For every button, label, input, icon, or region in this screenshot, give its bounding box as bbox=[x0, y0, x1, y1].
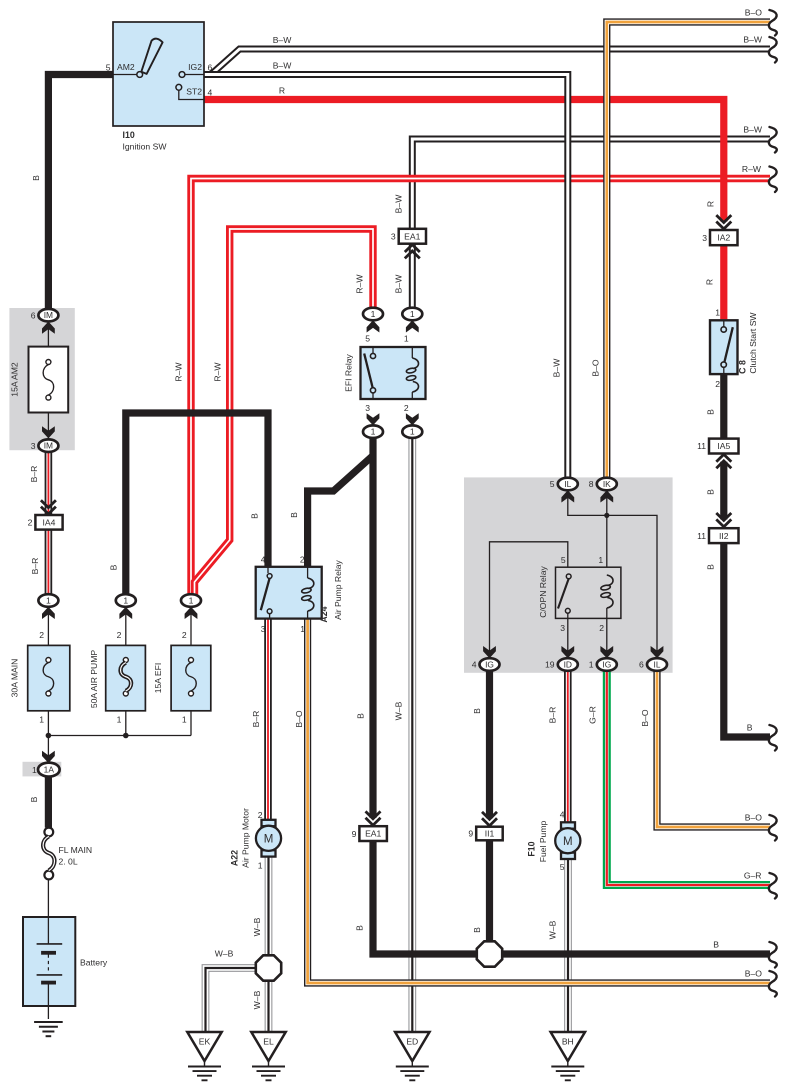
junction dot fuse rail left bbox=[46, 733, 52, 739]
connector 3 EA1 bbox=[391, 229, 426, 244]
svg-text:5: 5 bbox=[560, 862, 565, 872]
wire B-O from right edge down to C/OPN IK bbox=[607, 22, 770, 478]
ground battery bbox=[34, 1022, 63, 1036]
connector arrows EA1 lower bbox=[366, 811, 381, 825]
wire W-B junction to EL ground bbox=[265, 979, 273, 1032]
svg-text:W–B: W–B bbox=[252, 990, 262, 1009]
svg-text:5: 5 bbox=[106, 62, 111, 72]
svg-text:I10: I10 bbox=[123, 130, 135, 140]
svg-text:B–W: B–W bbox=[393, 194, 403, 214]
battery bbox=[23, 917, 108, 1006]
svg-text:Air Pump Relay: Air Pump Relay bbox=[333, 559, 343, 619]
ground EK bbox=[187, 1032, 221, 1080]
svg-text:1: 1 bbox=[598, 555, 603, 565]
svg-text:B–R: B–R bbox=[30, 558, 40, 575]
wire B-W from EA1 connector to right edge bbox=[412, 139, 770, 229]
clutch start switch C8 bbox=[710, 320, 738, 374]
arrow into 3 IM bbox=[42, 426, 55, 438]
svg-text:B–R: B–R bbox=[251, 711, 261, 728]
wire B main fuse feed inverted-U to air pump relay pin4 bbox=[126, 413, 268, 594]
svg-text:1: 1 bbox=[410, 427, 415, 437]
svg-text:B–R: B–R bbox=[547, 707, 557, 724]
wire B-O C/OPN IL to right edge bbox=[657, 671, 770, 827]
svg-text:5: 5 bbox=[550, 479, 555, 489]
arrow into 19 ID bbox=[561, 646, 574, 658]
svg-text:B: B bbox=[356, 713, 366, 719]
wire B-R C/OPN ID to fuel pump pin4 bbox=[564, 671, 572, 823]
arrow EFI pin3 bbox=[367, 413, 380, 425]
junction dot IK node bbox=[604, 513, 609, 518]
wire B-W EA1 connector to EFI relay pin1 oval bbox=[409, 244, 416, 308]
svg-text:19: 19 bbox=[545, 660, 555, 670]
wire thin C/OPN relay pin3 to ID oval bbox=[567, 618, 569, 652]
svg-text:B–W: B–W bbox=[273, 35, 293, 45]
connector 9 II1 bbox=[468, 827, 502, 841]
wire thin fuse feeds below connector ovals bbox=[48, 329, 191, 1019]
svg-text:4: 4 bbox=[560, 810, 565, 820]
svg-text:IG: IG bbox=[602, 660, 611, 670]
svg-text:M: M bbox=[563, 836, 573, 848]
shaded ECU area C/OPN relay bbox=[464, 477, 673, 672]
svg-text:B: B bbox=[29, 796, 39, 802]
fuse 50A AIR PUMP bbox=[106, 645, 146, 710]
wire thin C/OPN relay pin2 to IG oval bbox=[606, 618, 608, 652]
continuation curl B-O mid bbox=[769, 815, 777, 841]
svg-text:B–O: B–O bbox=[745, 969, 763, 979]
connector oval fuse 30A bbox=[38, 594, 58, 607]
connector oval EFI pin2 bbox=[402, 425, 422, 438]
svg-text:9: 9 bbox=[352, 829, 357, 839]
fusible link FL MAIN 2.0L bbox=[43, 828, 92, 880]
svg-text:Fuel Pump: Fuel Pump bbox=[538, 821, 548, 863]
svg-text:AM2: AM2 bbox=[117, 62, 135, 72]
connector 6 IM bbox=[31, 309, 59, 322]
arrow EFI pin5 bbox=[367, 320, 380, 332]
svg-text:1: 1 bbox=[32, 765, 37, 775]
wire B-W ignition IG2 branch upper to right edge bbox=[204, 49, 770, 75]
wire B branch to air pump relay pin2 bbox=[308, 456, 373, 568]
connector 2 IA4 bbox=[28, 515, 63, 530]
connector oval EFI pin1 bbox=[402, 308, 422, 321]
svg-text:ID: ID bbox=[564, 660, 572, 670]
svg-text:R: R bbox=[279, 86, 285, 96]
svg-text:2: 2 bbox=[28, 518, 33, 528]
svg-text:R–W: R–W bbox=[742, 164, 762, 174]
svg-text:F10: F10 bbox=[527, 841, 537, 856]
svg-text:IA4: IA4 bbox=[43, 517, 56, 527]
wire B-R air pump relay pin3 to air pump motor bbox=[264, 619, 272, 821]
svg-text:8: 8 bbox=[589, 479, 594, 489]
svg-text:1: 1 bbox=[371, 427, 376, 437]
svg-text:6: 6 bbox=[639, 660, 644, 670]
svg-text:6: 6 bbox=[31, 310, 36, 320]
svg-text:Air Pump Motor: Air Pump Motor bbox=[241, 808, 251, 868]
wire B II2 down to right edge bbox=[724, 543, 770, 737]
svg-text:W–B: W–B bbox=[547, 920, 557, 939]
svg-text:1: 1 bbox=[300, 624, 305, 634]
svg-text:B–W: B–W bbox=[743, 125, 763, 135]
svg-text:B–W: B–W bbox=[552, 358, 562, 378]
wire B ignition AM2 to junction block 6IM bbox=[48, 75, 204, 310]
continuation curl B clutch bbox=[769, 725, 777, 751]
svg-text:2. 0L: 2. 0L bbox=[59, 857, 78, 867]
connector oval fuse 50A bbox=[116, 594, 136, 607]
svg-text:W–B: W–B bbox=[215, 949, 234, 959]
continuation curl B-O bottom bbox=[769, 971, 777, 997]
arrow into oval 50A bbox=[119, 607, 132, 619]
svg-text:B: B bbox=[705, 409, 715, 415]
svg-text:2: 2 bbox=[117, 630, 122, 640]
continuation curl B-W top bbox=[769, 37, 777, 63]
relay C/OPN circuit opening relay bbox=[556, 567, 621, 618]
svg-text:IK: IK bbox=[603, 479, 611, 489]
svg-text:B: B bbox=[31, 175, 41, 181]
svg-text:Ignition SW: Ignition SW bbox=[123, 142, 168, 152]
connector arrows II1 bbox=[482, 812, 497, 826]
svg-text:EFI Relay: EFI Relay bbox=[344, 353, 354, 391]
connector 8 IK bbox=[589, 478, 617, 491]
svg-text:2: 2 bbox=[258, 810, 263, 820]
arrow into 1 IG bbox=[600, 646, 613, 658]
svg-text:B: B bbox=[355, 925, 365, 931]
svg-text:B: B bbox=[706, 489, 716, 495]
relay EFI bbox=[361, 347, 426, 399]
wire name labels vertical bbox=[29, 175, 716, 1009]
svg-text:1A: 1A bbox=[44, 765, 55, 775]
svg-text:IM: IM bbox=[44, 310, 53, 320]
svg-text:IA5: IA5 bbox=[717, 441, 730, 451]
wire thin C/OPN IL feed bbox=[568, 489, 657, 652]
continuation curl R-W bbox=[769, 167, 777, 193]
svg-text:1: 1 bbox=[46, 596, 51, 606]
wire thin C/OPN IK to relay coil pin1 bbox=[606, 489, 608, 567]
svg-text:1: 1 bbox=[117, 715, 122, 725]
svg-text:1: 1 bbox=[123, 596, 128, 606]
svg-text:B: B bbox=[713, 940, 719, 950]
svg-text:B–W: B–W bbox=[743, 35, 763, 45]
wire B battery positive to fusible link bbox=[45, 777, 52, 828]
connector arrows IA4 bbox=[41, 500, 56, 514]
wire B EA1 and bottom rail to right edge bbox=[373, 841, 770, 954]
wire W-B fuel pump pin5 to BH ground bbox=[564, 858, 572, 1032]
junction octagon W-B grounds bbox=[256, 955, 281, 980]
svg-text:FL MAIN: FL MAIN bbox=[59, 845, 93, 855]
svg-text:B–O: B–O bbox=[745, 813, 763, 823]
svg-text:15A AM2: 15A AM2 bbox=[10, 362, 20, 397]
fuse 15A EFI bbox=[171, 645, 211, 710]
continuation curl B-W mid bbox=[769, 127, 777, 153]
svg-text:R: R bbox=[705, 279, 715, 285]
svg-text:3: 3 bbox=[702, 233, 707, 243]
connector 1 1A bbox=[23, 762, 62, 777]
svg-text:B–R: B–R bbox=[29, 466, 39, 483]
motor A22 air pump motor bbox=[256, 820, 281, 857]
svg-text:2: 2 bbox=[599, 623, 604, 633]
svg-text:2: 2 bbox=[404, 403, 409, 413]
wire B EFI relay pin3 down to EA1 bbox=[369, 438, 376, 818]
svg-text:1: 1 bbox=[715, 307, 720, 317]
svg-text:11: 11 bbox=[697, 531, 706, 541]
svg-text:G–R: G–R bbox=[587, 706, 597, 724]
connector arrows II2 bbox=[716, 513, 731, 527]
motor F10 fuel pump bbox=[555, 822, 580, 859]
svg-text:2: 2 bbox=[300, 555, 305, 565]
svg-text:30A MAIN: 30A MAIN bbox=[10, 659, 20, 698]
svg-text:1: 1 bbox=[589, 660, 594, 670]
arrow into 6 IL bbox=[651, 646, 664, 658]
svg-text:1: 1 bbox=[371, 309, 376, 319]
svg-text:A24: A24 bbox=[319, 606, 329, 622]
svg-text:R–W: R–W bbox=[213, 362, 223, 382]
arrow into 4 IG bbox=[483, 646, 496, 658]
svg-text:4: 4 bbox=[261, 555, 266, 565]
svg-text:1: 1 bbox=[189, 596, 194, 606]
svg-text:1: 1 bbox=[404, 334, 409, 344]
arrow EFI pin1 bbox=[406, 320, 419, 332]
svg-text:C 8: C 8 bbox=[738, 360, 748, 374]
fuse 15A AM2 bbox=[29, 347, 69, 413]
wire name labels horizontal bbox=[215, 8, 763, 979]
svg-text:B: B bbox=[706, 564, 716, 570]
wire R-W branch to EFI relay pin5 bbox=[195, 229, 374, 596]
connector 9 EA1 bbox=[352, 826, 387, 841]
connector arrows IA5 bbox=[716, 454, 731, 468]
svg-text:R–W: R–W bbox=[174, 362, 184, 382]
svg-text:5: 5 bbox=[561, 555, 566, 565]
connector 3 IM bbox=[31, 439, 59, 452]
wire G-R C/OPN IG to right edge bbox=[607, 671, 770, 885]
svg-text:50A AIR PUMP: 50A AIR PUMP bbox=[89, 650, 99, 709]
svg-text:II1: II1 bbox=[485, 829, 495, 839]
svg-text:A22: A22 bbox=[230, 850, 240, 866]
connector 3 IA2 bbox=[702, 230, 737, 245]
arrow into 6 IM bbox=[42, 322, 55, 334]
svg-text:W–B: W–B bbox=[394, 701, 404, 720]
arrow into IK bbox=[600, 490, 613, 502]
fuse 30A MAIN bbox=[28, 645, 70, 710]
ground EL bbox=[251, 1032, 285, 1080]
connector oval EFI pin3 bbox=[363, 425, 383, 438]
svg-text:5: 5 bbox=[365, 334, 370, 344]
svg-text:B: B bbox=[250, 513, 260, 519]
svg-text:EK: EK bbox=[199, 1037, 211, 1047]
fuse pin labels bbox=[39, 630, 187, 725]
connector 19 ID bbox=[545, 658, 578, 671]
continuation curl B-O top bbox=[769, 10, 777, 36]
junction dot fuse rail middle bbox=[123, 733, 129, 739]
arrow into oval 15A EFI bbox=[185, 607, 198, 619]
connector 5 IL bbox=[550, 478, 578, 491]
svg-text:3: 3 bbox=[391, 231, 396, 241]
svg-text:15A EFI: 15A EFI bbox=[153, 663, 163, 694]
svg-text:M: M bbox=[264, 834, 274, 846]
shaded junction-block area IM bbox=[9, 308, 74, 450]
svg-text:B: B bbox=[289, 512, 299, 518]
svg-text:11: 11 bbox=[697, 441, 706, 451]
svg-text:B: B bbox=[747, 723, 753, 733]
connector 11 IA5 bbox=[697, 439, 738, 454]
connector oval EFI pin5 bbox=[363, 308, 383, 321]
svg-text:ED: ED bbox=[406, 1037, 418, 1047]
svg-text:Battery: Battery bbox=[80, 958, 108, 968]
svg-text:W–B: W–B bbox=[252, 917, 262, 936]
connector arrows IA2 bbox=[716, 215, 731, 229]
ground BH bbox=[551, 1032, 585, 1080]
svg-text:Clutch Start SW: Clutch Start SW bbox=[748, 312, 758, 374]
C/OPN pin labels bbox=[560, 555, 604, 633]
svg-text:3: 3 bbox=[31, 441, 36, 451]
svg-text:6: 6 bbox=[208, 62, 213, 72]
connector 4 IG bbox=[472, 658, 500, 671]
svg-text:3: 3 bbox=[560, 623, 565, 633]
connector oval fuse 15A EFI bbox=[181, 594, 201, 607]
EFI relay pin labels bbox=[365, 334, 409, 414]
connector 1 IG bbox=[589, 658, 617, 671]
svg-text:BH: BH bbox=[562, 1037, 574, 1047]
wire R-W fuse EFI to right edge bbox=[191, 179, 770, 595]
svg-text:R–W: R–W bbox=[355, 274, 365, 294]
svg-text:1: 1 bbox=[258, 861, 263, 871]
svg-text:1: 1 bbox=[39, 715, 44, 725]
wire W-B EFI relay pin2 to ED ground bbox=[408, 438, 416, 1033]
continuation curl B rail bbox=[769, 942, 777, 968]
svg-text:B–O: B–O bbox=[640, 709, 650, 727]
connector 11 II2 bbox=[697, 528, 738, 543]
wire B II1 to bottom junction bbox=[486, 840, 493, 947]
wire thin C/OPN relay pin5 to IG oval bbox=[490, 542, 568, 652]
svg-text:G–R: G–R bbox=[744, 871, 762, 881]
wire W-B junction to EK ground bbox=[206, 968, 258, 1032]
svg-text:4: 4 bbox=[472, 660, 477, 670]
svg-text:B–W: B–W bbox=[393, 274, 403, 294]
continuation curl G-R bbox=[769, 873, 777, 899]
arrow into IL bbox=[561, 490, 574, 502]
wire R IA2 to clutch start switch pin1 bbox=[720, 245, 727, 319]
wire W-B air pump motor to junction octagon bbox=[265, 856, 273, 958]
svg-text:B: B bbox=[109, 564, 119, 570]
svg-text:B–O: B–O bbox=[591, 359, 601, 377]
svg-text:1: 1 bbox=[410, 309, 415, 319]
arrow into oval 30A bbox=[42, 607, 55, 619]
svg-text:B: B bbox=[472, 708, 482, 714]
connector 6 IL bbox=[639, 658, 667, 671]
svg-text:R: R bbox=[705, 201, 715, 207]
svg-text:B–O: B–O bbox=[745, 8, 763, 18]
svg-text:B: B bbox=[472, 927, 482, 933]
svg-text:4: 4 bbox=[208, 87, 213, 97]
connector arrows EA1 bbox=[405, 245, 420, 259]
svg-text:IG2: IG2 bbox=[188, 62, 202, 72]
wire B-W ignition IG2 to C/OPN IL bbox=[204, 75, 568, 479]
wire B-R junction 3IM via IA4 to fuse 30A MAIN bbox=[45, 452, 53, 595]
svg-text:3: 3 bbox=[365, 403, 370, 413]
svg-text:IA2: IA2 bbox=[717, 233, 730, 243]
svg-text:2: 2 bbox=[182, 630, 187, 640]
svg-text:ST2: ST2 bbox=[186, 87, 202, 97]
ground ED bbox=[395, 1032, 429, 1080]
svg-text:2: 2 bbox=[39, 630, 44, 640]
wire B-O air pump relay pin1 to right edge bbox=[308, 619, 770, 983]
arrow EFI pin2 bbox=[406, 413, 419, 425]
svg-text:EL: EL bbox=[263, 1037, 274, 1047]
A24 pin labels bbox=[261, 555, 306, 635]
svg-text:1: 1 bbox=[182, 715, 187, 725]
ignition switch I10 box bbox=[113, 22, 204, 126]
svg-text:II2: II2 bbox=[719, 531, 729, 541]
wire B C/OPN IG output to II1 bbox=[486, 671, 493, 819]
svg-text:C/OPN Relay: C/OPN Relay bbox=[538, 566, 548, 618]
svg-text:B–W: B–W bbox=[273, 61, 293, 71]
junction octagon B rail bbox=[477, 941, 502, 966]
arrow into 1A bbox=[42, 751, 55, 763]
svg-text:IM: IM bbox=[44, 441, 53, 451]
wire R ignition ST2 to clutch start switch via IA2 bbox=[204, 100, 724, 222]
wire B IA5 to II2 bbox=[720, 462, 727, 520]
svg-text:IG: IG bbox=[485, 660, 494, 670]
svg-text:B–O: B–O bbox=[294, 710, 304, 728]
svg-text:2: 2 bbox=[715, 379, 720, 389]
wire B clutch start switch pin2 to IA5 bbox=[720, 375, 727, 439]
svg-text:EA1: EA1 bbox=[404, 231, 420, 241]
relay A24 air pump relay bbox=[256, 567, 322, 619]
svg-text:EA1: EA1 bbox=[365, 829, 381, 839]
svg-text:3: 3 bbox=[261, 624, 266, 634]
svg-text:9: 9 bbox=[468, 829, 473, 839]
svg-text:IL: IL bbox=[654, 660, 661, 670]
svg-text:IL: IL bbox=[564, 479, 571, 489]
